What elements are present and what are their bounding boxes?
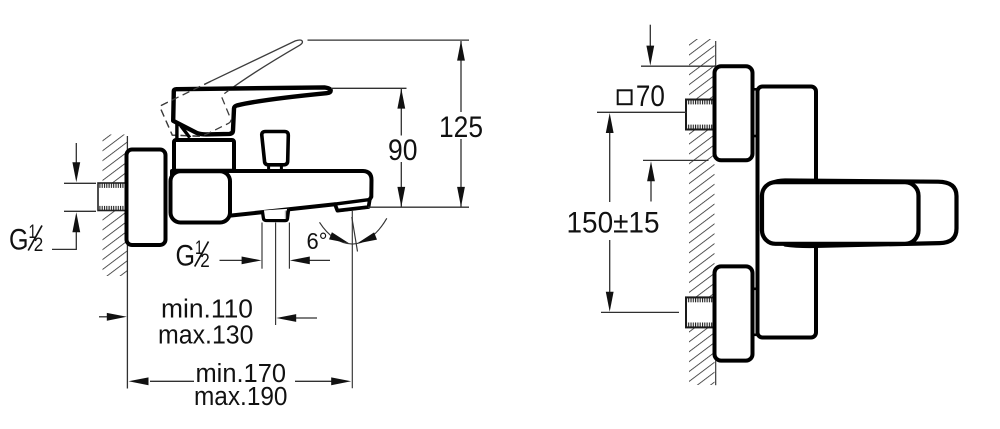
svg-text:6°: 6° bbox=[307, 228, 328, 254]
svg-text:G: G bbox=[9, 224, 29, 257]
svg-text:max.190: max.190 bbox=[194, 383, 288, 411]
svg-text:70: 70 bbox=[636, 80, 665, 113]
svg-text:G: G bbox=[176, 240, 196, 273]
svg-text:min.110: min.110 bbox=[161, 295, 253, 323]
svg-text:90: 90 bbox=[388, 134, 418, 167]
svg-text:150±15: 150±15 bbox=[567, 206, 660, 239]
svg-text:2: 2 bbox=[34, 235, 44, 256]
svg-text:max.130: max.130 bbox=[158, 321, 254, 349]
svg-text:2: 2 bbox=[200, 251, 210, 272]
svg-text:125: 125 bbox=[439, 111, 483, 144]
